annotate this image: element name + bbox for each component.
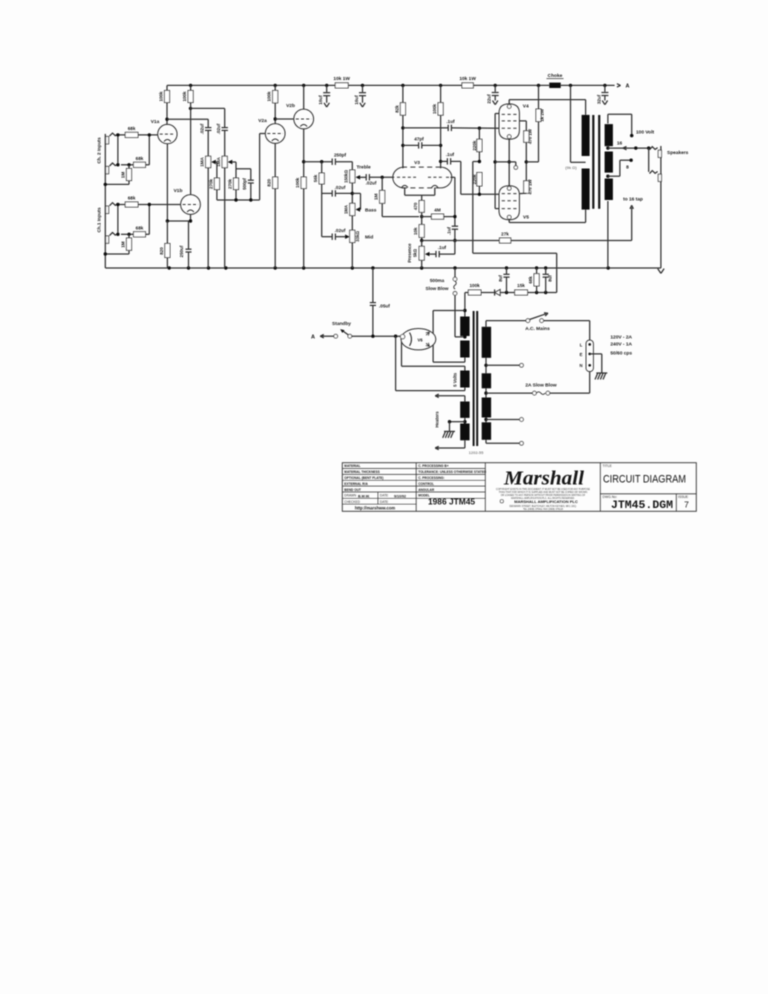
resistor 68k (bias bleed) <box>536 268 538 274</box>
svg-text:68k: 68k <box>528 276 533 284</box>
svg-text:CONTROL: CONTROL <box>418 482 434 486</box>
svg-text:220k: 220k <box>472 174 477 185</box>
wire: NFB line with 27k <box>420 239 423 242</box>
fuse 500ma slow blow (HT) <box>454 268 456 277</box>
svg-text:100k: 100k <box>469 283 480 288</box>
svg-text:.1uf: .1uf <box>446 119 455 124</box>
svg-text:100 Volt: 100 Volt <box>636 129 654 135</box>
title block frame <box>342 463 696 512</box>
wire: ground bus rail <box>105 267 661 269</box>
wire: B+ supply rail (net A) <box>167 84 335 86</box>
voltage tap terminals <box>486 364 520 366</box>
svg-text:1M: 1M <box>374 193 379 200</box>
svg-text:ISSUE: ISSUE <box>678 495 689 499</box>
svg-text:Slow Blow: Slow Blow <box>426 286 449 291</box>
svg-text:820: 820 <box>267 179 272 187</box>
capacitor 16uf (filter, with ground arrow) <box>326 85 328 92</box>
tube V3 (phase inverter) <box>393 167 404 188</box>
svg-text:OPTIONAL (BENT PLATE): OPTIONAL (BENT PLATE) <box>344 476 383 480</box>
svg-text:DENMARK STREET, BLETCHLEY, MIL: DENMARK STREET, BLETCHLEY, MILTON KEYNES… <box>509 505 576 508</box>
resistor 470 (PI tail upper) <box>419 201 424 213</box>
capacitor 32uf (main filter, with ground arrow) <box>604 85 606 91</box>
input jack ch1 low <box>106 236 109 243</box>
svg-text:100k: 100k <box>432 103 437 114</box>
wire: secondary bottom to ground rail <box>607 201 609 241</box>
svg-text:1MA: 1MA <box>199 157 204 167</box>
wire: V3 right plate column <box>440 115 442 168</box>
svg-text:1k 2W: 1k 2W <box>540 108 545 122</box>
capacitor .1uf (coupling to V5) <box>441 160 448 162</box>
wire: earth pin to ground <box>590 353 602 355</box>
svg-text:V1b: V1b <box>174 188 183 194</box>
wire: mixer output node to V2a grid <box>217 199 260 201</box>
svg-text:Mid: Mid <box>365 235 373 241</box>
svg-text:10k: 10k <box>413 227 418 235</box>
svg-text:TOLERANCE: UNLESS OTHERWISE ST: TOLERANCE: UNLESS OTHERWISE STATED <box>418 470 487 474</box>
svg-text:DRAWN: DRAWN <box>344 494 357 498</box>
svg-text:8uf: 8uf <box>498 275 503 282</box>
svg-text:5 Volts: 5 Volts <box>452 372 457 387</box>
svg-text:7: 7 <box>684 500 689 510</box>
resistor 270k (mixer ch2) <box>216 162 218 178</box>
svg-text:EXTERNAL R/A: EXTERNAL R/A <box>344 482 368 486</box>
svg-text:1202-55: 1202-55 <box>469 450 484 455</box>
resistor 820 (V1 cathode) <box>166 221 168 244</box>
svg-text:A: A <box>626 84 630 90</box>
output transformer core <box>592 115 594 209</box>
svg-text:Ch.1 Inputs: Ch.1 Inputs <box>97 207 102 232</box>
svg-text:(9k Ω): (9k Ω) <box>565 165 577 170</box>
wire: heater bottom tap <box>464 440 466 448</box>
wire: heater top tap <box>464 396 466 402</box>
resistor 1M (ch2 grid leak) <box>128 165 130 169</box>
wire: V1b plate to coupling cap <box>191 107 225 109</box>
output transformer secondary winding <box>605 124 613 146</box>
rectifier tube V6 <box>401 329 436 350</box>
wire: V1 cathode bus <box>166 144 168 221</box>
svg-text:.1uf: .1uf <box>446 152 455 157</box>
ground arrow at rail right end <box>658 269 661 274</box>
wire: cathode bus V4-V5 <box>508 139 510 186</box>
triode V1b <box>181 195 201 215</box>
power transformer 5V winding <box>460 371 469 388</box>
resistor 100k (V1a plate load) <box>166 103 168 125</box>
svg-text:5kΩ: 5kΩ <box>413 248 418 257</box>
svg-text:Standby: Standby <box>332 321 351 327</box>
pot wiper mid <box>345 235 350 239</box>
svg-text:THAN THAT FOR WHICH IT IS SUPP: THAN THAT FOR WHICH IT IS SUPPLIED AND M… <box>499 491 588 494</box>
svg-text:100k: 100k <box>182 91 187 102</box>
svg-text:OR LOANED TO ANY PERSON WITHOU: OR LOANED TO ANY PERSON WITHOUT PRIOR PE… <box>501 494 586 497</box>
svg-text:270k: 270k <box>208 178 213 189</box>
wire: V3 cathode tail <box>404 188 406 196</box>
wire: V5 plate to output transformer <box>508 220 510 223</box>
resistor 470 1W (V4 screen) <box>519 120 526 122</box>
resistor 820 (V2a cathode) <box>274 143 276 177</box>
resistor 1M (ch1 grid leak) <box>128 234 130 238</box>
svg-text:120V - 2A: 120V - 2A <box>610 335 632 341</box>
triode V2b (cathode follower) <box>294 109 314 129</box>
svg-text:270k: 270k <box>228 178 233 189</box>
title block left grid <box>342 468 416 470</box>
svg-text:68k: 68k <box>136 226 144 231</box>
mains connector L E N <box>586 340 593 372</box>
potentiometer Bass 1MA <box>351 183 353 204</box>
svg-text:240V - 1A: 240V - 1A <box>610 342 632 348</box>
capacitor .02uf (ch2 coupling) <box>207 119 209 127</box>
capacitor .1uf (NFB) <box>452 225 458 227</box>
node: screen feed <box>525 160 528 163</box>
resistor 100k (bias feed) <box>468 290 481 295</box>
svg-text:.02uf: .02uf <box>366 181 377 186</box>
svg-text:Treble: Treble <box>357 164 371 170</box>
svg-text:1M: 1M <box>121 241 126 248</box>
capacitor .05uf (standby) <box>372 268 374 302</box>
power transformer mains primary winding <box>482 327 491 358</box>
resistor 220k (V5 grid leak) <box>478 160 481 163</box>
title block middle grid <box>416 468 485 470</box>
svg-text:TEL (0908) 375411 FAX (0908) 3: TEL (0908) 375411 FAX (0908) 376118 <box>523 508 564 511</box>
triode V2a <box>265 124 285 144</box>
capacitor .02uf (tone mid-cap lower) <box>322 236 333 238</box>
resistor 100k (V3 plate load right) <box>440 85 442 102</box>
svg-text:1M: 1M <box>121 172 126 179</box>
svg-text:.1uf: .1uf <box>438 245 447 250</box>
svg-text:E: E <box>580 352 583 357</box>
junction dots on ground rail <box>168 266 171 269</box>
wire: input jack bus (left vertical) <box>104 134 106 268</box>
svg-text:100k: 100k <box>295 177 300 188</box>
svg-text:16: 16 <box>617 140 623 146</box>
potentiometer Mid 33k <box>351 216 353 231</box>
svg-text:8uf: 8uf <box>548 275 553 282</box>
capacitor .1uf (coupling to V4) <box>403 127 448 129</box>
net arrow A (B+ rail right end) <box>617 85 621 87</box>
potentiometer Treble 150k <box>351 162 353 170</box>
svg-text:10k 1W: 10k 1W <box>333 76 350 82</box>
svg-text:32uf: 32uf <box>596 94 601 104</box>
resistor 270k (mixer ch1) <box>235 162 237 178</box>
svg-text:820: 820 <box>159 247 164 255</box>
pot wiper ch2 volume <box>211 160 216 164</box>
potentiometer 1MA (ch1 volume) <box>222 156 227 168</box>
capacitor 47pf (PI balance) <box>403 144 419 146</box>
node: V1b plate junction <box>189 107 192 110</box>
wire: V3 right grid down to NFB node <box>450 176 455 178</box>
svg-text:2A Slow Blow: 2A Slow Blow <box>525 383 557 389</box>
svg-text:16uf: 16uf <box>354 95 359 105</box>
choke <box>549 83 560 88</box>
svg-text:470: 470 <box>413 202 418 210</box>
pot wiper treble to coupling cap <box>356 175 361 179</box>
svg-text:47pf: 47pf <box>414 136 424 141</box>
svg-text:220k: 220k <box>472 140 477 151</box>
svg-text:V2a: V2a <box>258 118 267 124</box>
capacitor 22uf (screen filter, with ground arrow) <box>494 85 496 91</box>
svg-text:250uf: 250uf <box>179 245 184 257</box>
svg-text:COPYRIGHT EXISTS IN THIS DOCUM: COPYRIGHT EXISTS IN THIS DOCUMENT. IT MU… <box>496 488 590 491</box>
svg-text:Presence: Presence <box>407 243 412 263</box>
svg-text:.1uf: .1uf <box>447 227 452 236</box>
svg-text:N: N <box>579 363 582 368</box>
resistor 68k (ch2 grid stopper 2) <box>121 164 134 166</box>
svg-text:Ch. 2 Inputs: Ch. 2 Inputs <box>97 137 102 164</box>
resistor 100k (V1b plate load) <box>190 85 192 90</box>
wire: HT center tap to fuse <box>455 336 465 338</box>
svg-text:C. PROCESSING:: C. PROCESSING: <box>418 476 444 480</box>
svg-text:8: 8 <box>626 165 629 171</box>
svg-text:68k: 68k <box>136 156 144 161</box>
svg-text:100k: 100k <box>159 91 164 102</box>
svg-text:4M: 4M <box>434 208 441 213</box>
power tube V5 <box>499 186 519 220</box>
svg-text:33kΩ: 33kΩ <box>355 231 360 242</box>
svg-text:L: L <box>580 342 583 347</box>
wire: V2b plate to rail <box>303 85 305 109</box>
output transformer primary winding <box>582 115 590 156</box>
capacitor 250uf (V1 cathode bypass) <box>188 221 190 249</box>
potentiometer 1MA (ch2 volume) <box>206 156 211 168</box>
svg-text:V1a: V1a <box>151 119 160 125</box>
svg-text:15k: 15k <box>517 283 525 288</box>
wire: V6 plate 1 to HT top <box>432 311 434 334</box>
wire: V5 grid feed <box>460 161 462 194</box>
wire: V6 filament to 5V winding <box>401 342 403 366</box>
svg-text:500ma: 500ma <box>430 278 445 283</box>
svg-text:A.C. Mains: A.C. Mains <box>525 326 550 332</box>
power transformer core <box>473 311 475 446</box>
wire: grid bias feed <box>473 161 480 163</box>
svg-text:MATERIAL THICKNESS: MATERIAL THICKNESS <box>344 470 379 474</box>
wire: V3 left plate column <box>402 115 404 168</box>
svg-text:V2b: V2b <box>286 103 295 109</box>
svg-text:Marshall: Marshall <box>503 468 585 490</box>
wire: ch2 ground return <box>105 183 129 185</box>
svg-text:150kΩ: 150kΩ <box>344 169 349 183</box>
node: tone stack feed <box>302 160 305 163</box>
pot wiper ch1 volume <box>228 160 233 164</box>
svg-text:1986 JTM45: 1986 JTM45 <box>428 496 475 506</box>
wire: ch2 jack link and grid node <box>117 135 119 165</box>
svg-text:.02uf: .02uf <box>335 185 346 190</box>
resistor 100k (V2a plate load) <box>274 85 276 90</box>
svg-text:250pf: 250pf <box>334 153 346 158</box>
wire: V4 beam plates <box>495 113 499 115</box>
input jack ch1 high <box>106 206 109 213</box>
standby switch <box>334 334 338 338</box>
capacitor 250pf (treble) <box>331 159 333 165</box>
svg-text:CHECKED: CHECKED <box>344 500 360 504</box>
pot wiper bass <box>352 192 360 194</box>
resistor 470 1W (V5 screen) <box>525 162 527 181</box>
capacitor 500pf (bright) <box>236 168 251 170</box>
svg-text:TITLE: TITLE <box>603 464 613 468</box>
power transformer HT winding <box>460 317 469 337</box>
resistor 10k (PI tail lower) <box>421 237 423 240</box>
svg-text:B.M.W.: B.M.W. <box>358 495 370 499</box>
capacitor 8uf (bias filter 1) <box>506 268 508 274</box>
wire: ch1 jack link and grid node <box>117 205 119 235</box>
resistor 68k (ch1 grid stopper 1) <box>118 204 125 206</box>
svg-text:100k: 100k <box>267 91 272 102</box>
resistor 220k (V4 grid leak) <box>478 127 481 130</box>
wire: ch1 ground return <box>105 253 129 255</box>
svg-text:500pf: 500pf <box>242 178 247 190</box>
svg-text:MATERIAL: MATERIAL <box>344 464 360 468</box>
resistor 1M (V3 grid leak) <box>381 177 383 190</box>
svg-text:.02uf: .02uf <box>335 228 346 233</box>
speaker jacks <box>660 146 662 268</box>
svg-text:.02uf: .02uf <box>216 123 221 134</box>
svg-text:.05uf: .05uf <box>379 303 390 308</box>
capacitor 8uf (bias filter 2) <box>545 268 547 274</box>
wire: 100V tap <box>607 114 609 123</box>
power tube V4 <box>499 104 519 139</box>
wire: V1a plate to coupling cap <box>167 118 208 120</box>
svg-text:27k: 27k <box>501 231 509 236</box>
potentiometer Presence 5k <box>421 241 423 247</box>
svg-text:.02uf: .02uf <box>199 123 204 134</box>
svg-text:CIRCUIT DIAGRAM: CIRCUIT DIAGRAM <box>603 473 686 485</box>
wire: 16 ohm tap to speakers <box>606 146 609 149</box>
resistor 27k (NFB) <box>511 240 632 242</box>
resistor 82k (V3 plate load left) <box>402 85 404 102</box>
power transformer heater winding <box>460 402 469 418</box>
wire: 8 ohm tap <box>606 175 609 178</box>
svg-text:10k 1W: 10k 1W <box>459 76 476 82</box>
input jack ch2 high <box>106 137 109 144</box>
svg-text:9/10/92: 9/10/92 <box>394 495 406 499</box>
svg-text:DWG.No:: DWG.No: <box>603 495 618 499</box>
svg-text:1MA: 1MA <box>344 205 349 214</box>
svg-text:16uf: 16uf <box>318 95 323 105</box>
svg-text:V4: V4 <box>523 103 529 109</box>
junction dots on B+ rail <box>189 84 192 87</box>
svg-text:DATE: DATE <box>380 494 388 498</box>
capacitor 16uf (filter 2, with ground arrow) <box>362 85 364 92</box>
node: V3 grid <box>381 176 384 179</box>
svg-text:Bass: Bass <box>365 207 377 213</box>
svg-text:68k: 68k <box>128 126 136 131</box>
node: V1a plate junction <box>165 118 168 121</box>
svg-text:ANGULAR: ANGULAR <box>418 488 435 492</box>
fuse 2A slow blow (mains) <box>486 392 533 394</box>
svg-text:Speakers: Speakers <box>667 150 689 156</box>
wire: bias line <box>481 292 494 294</box>
wire: V4 plate to output transformer <box>508 100 510 105</box>
svg-text:68k: 68k <box>128 196 136 201</box>
resistor 1k 2W (screen feed) <box>538 85 540 109</box>
svg-text:A: A <box>311 335 315 341</box>
heater center tap to earth <box>464 418 466 424</box>
node: tail junction <box>420 215 423 218</box>
svg-text:to 16 tap: to 16 tap <box>623 197 643 203</box>
diode (bias rectifier) <box>495 289 501 295</box>
svg-text:BEND OUT: BEND OUT <box>344 488 361 492</box>
switch A.C. Mains <box>485 321 487 328</box>
resistor 68k (ch2 grid stopper 1) <box>118 134 125 136</box>
pot wiper presence with .1uf <box>425 252 430 256</box>
wire: primary center tap to rail <box>571 161 586 163</box>
svg-text:MARSHALL AMPLIFICATION PLC: MARSHALL AMPLIFICATION PLC <box>514 499 578 504</box>
svg-text:56k: 56k <box>313 174 318 182</box>
triode V1a <box>158 124 177 143</box>
svg-text:Heaters: Heaters <box>435 411 440 428</box>
resistor 100k (V2b cathode) <box>303 129 305 177</box>
svg-text:V3: V3 <box>414 160 420 166</box>
input jack ch2 low <box>106 166 109 173</box>
svg-text:470 1W: 470 1W <box>527 128 532 144</box>
wire: V6 plate 2 to HT bottom <box>432 345 434 362</box>
svg-text:22uf: 22uf <box>487 94 492 104</box>
svg-text:JTM45.DGM: JTM45.DGM <box>611 500 673 512</box>
svg-text:82k: 82k <box>394 105 399 113</box>
resistor 10k 1W (second dropper) <box>462 83 473 88</box>
svg-text:C. PROCESSING B+: C. PROCESSING B+ <box>418 464 449 468</box>
resistor 10k 1W (first dropper) <box>335 83 348 88</box>
svg-text:http://marshww.com: http://marshww.com <box>355 505 396 510</box>
resistor 4M (tail to NFB) <box>422 216 432 218</box>
node: V2a plate to V2b grid <box>274 103 276 124</box>
capacitor .02uf (tone mid-cap upper) <box>322 192 333 194</box>
resistor 68k (ch1 grid stopper 2) <box>121 233 134 235</box>
resistor 56k (tone slope) <box>320 160 323 163</box>
arrow: to 16 ohm tap <box>631 208 633 241</box>
svg-text:V5: V5 <box>523 214 529 220</box>
svg-text:DATE: DATE <box>380 500 388 504</box>
wire: mains primary column taps <box>485 358 487 374</box>
svg-text:V6: V6 <box>417 337 423 342</box>
svg-text:50/60 cps: 50/60 cps <box>610 350 632 356</box>
capacitor .02uf (ch1 coupling) <box>224 108 226 127</box>
resistor 15k (bias) <box>515 290 528 295</box>
svg-text:470 1W: 470 1W <box>527 179 532 195</box>
